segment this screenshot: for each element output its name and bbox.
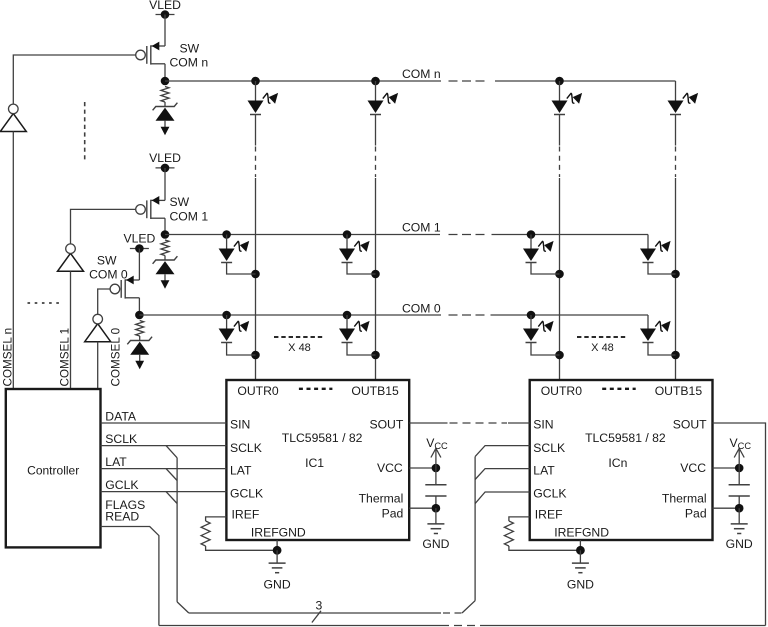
wire COM 1 row (dashed continuation) [449,234,487,236]
LED D-OUTB15 (ICn)-COMn [668,81,699,115]
inverter U-n (COMSEL n buffer) [0,104,26,131]
wire COM0 LED cathode jog to column [347,343,376,356]
wire ICn VCC pin to decoupling node [713,467,740,469]
wire bus bottom horizontal [189,612,441,614]
svg-text:OUTB15: OUTB15 [351,384,399,398]
svg-text:LAT: LAT [230,464,252,478]
wire SW COM 0 gate to inverter U-0 output [98,289,110,314]
svg-text:VCC: VCC [426,436,448,451]
svg-text:VLED: VLED [123,232,155,246]
svg-text:X 48: X 48 [288,342,311,354]
wire bus breakout to ICn LAT [475,469,530,480]
wire IC1 VCC pin to decoupling node [409,467,436,469]
wire inverter U-0 input from controller COMSEL 0 [97,342,99,389]
wire IC1 IREF to bias resistor [206,517,227,521]
wire VLED to SW COM n source [164,15,166,47]
svg-text:GND: GND [726,537,753,551]
node VCC (ICn) [735,464,744,473]
node COM n at switch drain [161,77,170,86]
transistor SW COM 1 (PMOS) [136,195,209,224]
ground symbol at IC1 thermal pad [422,508,449,551]
svg-text:GND: GND [567,578,594,592]
wire ICn Thermal Pad to ground node [713,507,740,509]
wire bottom return line dashed segment [441,625,479,627]
svg-text:SOUT: SOUT [673,417,707,431]
svg-text:READ: READ [105,510,139,524]
wire VLED to SW COM 1 source [164,168,166,201]
wire column OUTB15 (ICn) upper segment [675,115,677,146]
svg-text:Controller: Controller [27,464,79,478]
node column OUTR0 (IC1) / COM1 LED cathode [251,270,260,279]
svg-text:COM n: COM n [402,67,441,81]
wire column OUTB15 (IC1) upper segment [375,115,377,146]
wire SCLK (controller to IC1) [101,445,227,447]
wire SW COM n gate to inverter U-n output [13,55,135,104]
svg-text:SCLK: SCLK [230,441,262,455]
ground symbol at IC1 IREFGND [264,550,291,591]
LED D-OUTB15 (ICn)-COM1 [640,235,671,263]
node column OUTR0 (ICn) / COM1 LED cathode [555,270,564,279]
svg-text:Thermal: Thermal [359,492,404,506]
wire bottom return line (left segment to FLAGS READ) [159,625,441,627]
node COM n / LED anode junction [371,77,380,86]
svg-text:GCLK: GCLK [105,478,138,492]
wire bus breakout to ICn SCLK [475,446,530,457]
wire COM1 LED cathode jog to column [227,263,256,275]
svg-text:IC1: IC1 [305,456,324,470]
capacitor C-ICn (VCC decoupling) [729,468,750,508]
wire resistor to IREFGND node (IC1) [206,546,278,550]
wire bus diagonal up to right bus vertical [462,601,475,613]
svg-text:VCC: VCC [730,436,752,451]
node COM 1 / LED anode junction [222,230,231,239]
svg-text:COM 1: COM 1 [170,210,209,224]
ground symbol at ICn thermal pad [726,508,753,551]
inverter U-1 (COMSEL 1 buffer) [58,244,84,271]
svg-text:TLC59581 / 82: TLC59581 / 82 [282,431,363,445]
svg-text:IREF: IREF [535,508,563,522]
svg-text:COM 0: COM 0 [89,268,128,282]
label X 48 (left LED bank) [274,336,325,338]
wire COM0 LED cathode jog to column [531,343,560,356]
wire column OUTR0 (IC1) upper segment [255,115,257,146]
wire VLED to SW COM 0 source [138,249,140,281]
node Thermal Pad ground (IC1) [432,504,441,513]
svg-text:SCLK: SCLK [105,432,137,446]
power arrow VCC (ICn) [734,448,744,468]
svg-text:GCLK: GCLK [533,487,566,501]
node column OUTR0 (ICn) / COM0 LED cathode [555,351,564,360]
svg-text:COMSEL n: COMSEL n [2,328,15,387]
svg-text:VLED: VLED [149,151,181,165]
wire bus vertical (left) [176,458,178,602]
capacitor C-IC1 (VCC decoupling) [425,468,446,508]
svg-text:IREFGND: IREFGND [554,525,609,539]
node column OUTB15 (IC1) / COM0 LED cathode [371,351,380,360]
svg-text:VLED: VLED [149,0,181,12]
wire column OUTR0 (IC1) lower segment [255,178,257,380]
wire bus vertical (right) [474,457,476,601]
wire column OUTR0 (ICn) upper segment [559,115,561,146]
svg-text:X 48: X 48 [591,342,614,354]
wire SW COM 1 drain to COM 1 node [164,218,166,234]
wire column OUTB15 (IC1) lower segment [375,178,377,380]
power flag VLED (SW COM n) [156,14,175,16]
svg-text:SW: SW [180,42,200,56]
resistor R-IREF (IC1) [201,521,210,546]
svg-text:SW: SW [170,195,190,209]
node IREFGND (IC1) [273,546,282,555]
node COM 1 / LED anode junction [343,230,352,239]
svg-text:IREFGND: IREFGND [251,525,306,539]
svg-text:VCC: VCC [680,461,706,475]
ground symbol at ICn IREFGND [567,550,594,591]
node column OUTB15 (ICn) / COM0 LED cathode [671,351,680,360]
node COM 0 / LED anode junction [527,311,536,320]
wire SOUT to SIN dashed continuation [450,422,508,424]
wire bottom return line (right solid segment) [480,625,766,627]
svg-text:COM n: COM n [170,56,209,70]
wire column OUTB15 (ICn) lower segment [675,178,677,380]
svg-text:3: 3 [316,599,323,613]
node COM 0 at switch drain [135,311,144,320]
wire SW COM 1 gate to inverter U-1 output [71,209,136,244]
wire COM 1 row (left segment) [165,234,440,236]
LED D-OUTR0 (IC1)-COM1 [219,235,250,263]
svg-text:LAT: LAT [533,464,555,478]
node Thermal Pad ground (ICn) [735,504,744,513]
wire COM 0 row (right segment) [491,314,649,316]
resistor R-IREF (ICn) [504,521,513,546]
wire IC1 IREFGND pin down [276,540,278,550]
LED D-OUTB15 (ICn)-COM0 [640,315,671,343]
resistor + TVS zener D-COM1 to ground arrow [153,240,178,289]
node column OUTR0 (IC1) / COM0 LED cathode [251,351,260,360]
transistor SW COM n (PMOS) [136,42,208,70]
wire column OUTB15 (ICn) dashed break [675,147,677,178]
node COM 0 / LED anode junction [343,311,352,320]
bus width marker slash and label 3 [312,611,321,623]
wire bus entry from GCLK [166,492,177,504]
wire IC1 SOUT toward ICn SIN (solid) [409,422,447,424]
power flag VLED (SW COM 1) [156,167,175,169]
label X 48 (right LED bank) [577,336,628,338]
wire inverter U-n input from controller COMSEL n [12,132,14,390]
svg-text:SCLK: SCLK [533,441,565,455]
wire DATA (controller to IC1 SIN) [101,422,227,424]
wire bus bottom dashed continuation [443,612,462,614]
wire resistor to IREFGND node (ICn) [509,546,581,550]
ellipsis between COMSEL wires [28,302,64,304]
node VCC (IC1) [432,464,441,473]
svg-text:LAT: LAT [105,455,127,469]
wire COM n row (right segment) [495,80,676,82]
wire GCLK (controller to IC1) [101,491,227,493]
node COM 0 / LED anode junction [222,311,231,320]
svg-text:VCC: VCC [377,461,403,475]
LED D-OUTR0 (IC1)-COMn [248,81,279,115]
wire SW COM n drain to COM n node [164,64,166,81]
LED D-OUTR0 (ICn)-COM0 [523,315,554,343]
wire COM1 LED cathode jog to column [648,263,676,275]
wire FLAGS READ from controller to bottom return line [101,527,159,626]
svg-text:SW: SW [97,254,117,268]
svg-text:GCLK: GCLK [230,487,263,501]
svg-text:DATA: DATA [105,409,137,423]
node IREFGND (ICn) [576,546,585,555]
LED D-OUTR0 (ICn)-COM1 [523,235,554,263]
wire ICn IREF to bias resistor [509,517,530,521]
wire bus bottom corner chamfer (left) [177,602,189,613]
wire COM 0 row (dashed continuation) [449,314,485,316]
svg-text:COM 0: COM 0 [402,302,441,316]
wire ICn SIN entry [508,422,530,424]
IC U-ICn TLC59581/82 (ICn) [530,380,713,540]
wire COM n row (dashed continuation) [449,80,490,82]
svg-text:IREF: IREF [232,508,260,522]
svg-text:GND: GND [422,537,449,551]
node column OUTB15 (ICn) / COM1 LED cathode [671,270,680,279]
resistor + TVS zener D-COMn to ground arrow [153,87,178,136]
wire ICn SOUT to right edge and down to return line [713,423,766,626]
wire COM0 LED cathode jog to column [227,343,256,356]
svg-text:SOUT: SOUT [369,417,403,431]
wire bus entry from SCLK [166,446,177,458]
svg-text:OUTB15: OUTB15 [655,384,703,398]
svg-text:OUTR0: OUTR0 [237,384,279,398]
wire COM n row (left segment) [165,80,441,82]
svg-text:Pad: Pad [685,507,707,521]
svg-text:TLC59581 / 82: TLC59581 / 82 [585,431,666,445]
node COM n / LED anode junction [555,77,564,86]
svg-text:GND: GND [264,578,291,592]
svg-text:SIN: SIN [230,417,250,431]
wire column OUTR0 (ICn) dashed break [559,147,561,178]
wire ICn IREFGND pin down [579,540,581,550]
node COM 1 / LED anode junction [527,230,536,239]
svg-text:SIN: SIN [533,417,553,431]
inverter U-0 (COMSEL 0 buffer) [85,314,111,341]
wire COM 1 row (right segment) [492,234,649,236]
wire inverter U-1 input from controller COMSEL 1 [70,271,72,389]
wire COM 0 row (left segment) [139,314,441,316]
wire column OUTB15 (IC1) dashed break [375,147,377,178]
wire bus entry from LAT [166,469,177,481]
resistor + TVS zener D-COM0 to ground arrow [127,321,152,370]
svg-text:COMSEL 0: COMSEL 0 [109,327,122,386]
LED D-OUTB15 (IC1)-COM0 [339,315,370,343]
power arrow VCC (IC1) [431,448,441,468]
power flag VLED (SW COM 0) [130,248,149,250]
wire COM1 LED cathode jog to column [347,263,376,275]
wire column OUTR0 (ICn) lower segment [559,178,561,380]
wire COM1 LED cathode jog to column [531,263,560,275]
ellipsis vertical between SW COM n and SW COM 1 [84,102,86,162]
wire LAT (controller to IC1) [101,468,227,470]
wire SW COM 0 drain to COM 0 node [138,298,140,315]
node COM n / LED anode junction [251,77,260,86]
svg-text:OUTR0: OUTR0 [541,384,583,398]
node COM 1 at switch drain [161,230,170,239]
LED D-OUTR0 (IC1)-COM0 [219,315,250,343]
transistor SW COM 0 (PMOS) [89,254,139,299]
node column OUTB15 (IC1) / COM1 LED cathode [371,270,380,279]
wire IC1 Thermal Pad to ground node [409,507,436,509]
svg-text:COMSEL 1: COMSEL 1 [59,328,72,387]
wire column OUTR0 (IC1) dashed break [255,147,257,178]
svg-text:ICn: ICn [608,456,627,470]
svg-text:COM 1: COM 1 [402,221,441,235]
LED D-OUTB15 (IC1)-COM1 [339,235,370,263]
wire COM0 LED cathode jog to column [648,343,676,356]
IC U-IC1 TLC59581/82 (IC1) [226,380,409,540]
svg-text:Pad: Pad [382,507,404,521]
svg-text:Thermal: Thermal [662,492,707,506]
wire bus breakout to ICn GCLK [475,492,530,504]
LED D-OUTB15 (IC1)-COMn [368,81,399,115]
controller block [6,389,101,547]
LED D-OUTR0 (ICn)-COMn [552,81,583,115]
